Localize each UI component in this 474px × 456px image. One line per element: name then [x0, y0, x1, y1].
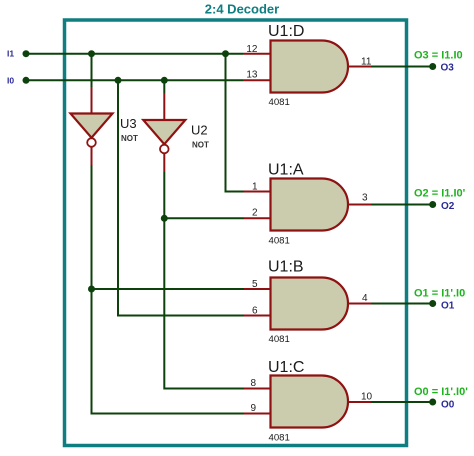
junction U3 output to pin5 — [88, 286, 95, 293]
svg-text:5: 5 — [252, 279, 258, 290]
sheet border frame — [65, 20, 407, 446]
junction I1 to pin1 vertical — [222, 50, 229, 57]
svg-text:4081: 4081 — [269, 433, 290, 444]
svg-text:U1:C: U1:C — [268, 359, 304, 376]
wire U2 output down to U1:C pin 8 — [164, 172, 244, 389]
wire O2 — [371, 204, 433, 206]
wire O3 — [371, 66, 433, 68]
svg-text:I0: I0 — [7, 75, 14, 85]
terminal dot O1 — [429, 300, 436, 307]
svg-text:8: 8 — [250, 378, 256, 389]
wire U3 output down to U1:C pin 9 — [92, 165, 245, 414]
svg-text:10: 10 — [361, 392, 373, 403]
svg-text:U1:B: U1:B — [268, 259, 304, 276]
wire I1 down to U1:A pin 1 — [226, 54, 245, 192]
svg-text:3: 3 — [362, 193, 368, 204]
svg-text:NOT: NOT — [121, 134, 138, 143]
svg-text:4081: 4081 — [269, 97, 290, 108]
pin stub U3 input — [91, 87, 93, 114]
svg-text:12: 12 — [246, 44, 258, 55]
terminal dot O2 — [429, 201, 436, 208]
and-gate U1:D — [271, 41, 349, 93]
svg-text:O0 = I1'.I0': O0 = I1'.I0' — [414, 386, 468, 398]
svg-text:4081: 4081 — [269, 236, 290, 247]
junction I1 to U3 — [88, 50, 95, 57]
pin stub U1:D pin 13 — [243, 79, 271, 81]
inverter U2 — [143, 120, 185, 153]
junction U2 output to pin2 — [161, 215, 168, 222]
terminal dot I1 — [23, 50, 30, 57]
and-gate U1:A — [271, 179, 349, 231]
and-gate U1:C — [271, 376, 349, 428]
svg-text:U1:A: U1:A — [268, 162, 304, 179]
svg-text:O1: O1 — [441, 301, 455, 312]
pin stub U1:B pin 4 output — [349, 303, 372, 305]
svg-text:4081: 4081 — [269, 334, 290, 345]
pin stub U1:C pin 10 output — [349, 401, 372, 403]
svg-text:2:4 Decoder: 2:4 Decoder — [205, 2, 279, 17]
svg-text:O0: O0 — [441, 400, 455, 411]
svg-text:1: 1 — [252, 182, 258, 193]
svg-text:O2 = I1.I0': O2 = I1.I0' — [414, 188, 466, 200]
pin stub U1:D pin 12 — [243, 53, 271, 55]
svg-text:U3: U3 — [120, 116, 137, 131]
svg-text:O3: O3 — [441, 63, 455, 74]
wire I1 down to U3 input — [91, 54, 93, 87]
pin stub U1:C pin 9 — [244, 413, 271, 415]
pin stub U2 output — [163, 154, 165, 173]
svg-text:O1 = I1'.I0: O1 = I1'.I0 — [414, 288, 465, 300]
pin stub U1:B pin 6 — [244, 315, 271, 317]
wire O1 — [371, 303, 433, 305]
svg-text:13: 13 — [246, 70, 258, 81]
svg-text:11: 11 — [361, 57, 372, 68]
pin stub U1:A pin 3 output — [349, 204, 372, 206]
pin stub U1:C pin 8 — [244, 388, 271, 390]
svg-text:4: 4 — [362, 293, 368, 304]
svg-text:U2: U2 — [191, 123, 208, 138]
wire U2 output to U1:A pin 2 — [164, 217, 244, 219]
terminal dot O0 — [429, 399, 436, 406]
wire I0 down to U2 input — [163, 80, 165, 93]
svg-text:NOT: NOT — [192, 141, 209, 150]
wire I0 rail — [26, 79, 243, 81]
pin stub U1:A pin 2 — [244, 217, 271, 219]
svg-text:O2: O2 — [441, 201, 455, 212]
svg-text:I1: I1 — [7, 49, 14, 59]
svg-text:2: 2 — [252, 208, 258, 219]
junction I0 to U2 — [161, 77, 168, 84]
svg-text:O3 = I1.I0: O3 = I1.I0 — [414, 50, 463, 62]
inverter U3 — [71, 114, 113, 147]
wire I1 rail — [26, 53, 243, 55]
svg-text:U1:D: U1:D — [268, 23, 304, 40]
svg-text:9: 9 — [250, 403, 256, 414]
pin stub U2 input — [163, 93, 165, 120]
pin stub U1:A pin 1 — [244, 191, 271, 193]
svg-text:6: 6 — [252, 306, 258, 317]
wire U3 output to U1:B pin 5 — [92, 288, 245, 290]
wire I0 down to U1:B pin 6 — [118, 80, 244, 315]
pin stub U3 output — [91, 147, 93, 165]
and-gate U1:B — [271, 278, 349, 330]
pin stub U1:B pin 5 — [244, 288, 271, 290]
junction I0 to pin6 vertical — [115, 77, 122, 84]
wire O0 — [371, 401, 433, 403]
terminal dot O3 — [429, 63, 436, 70]
terminal dot I0 — [23, 77, 30, 84]
pin stub U1:D pin 11 output — [349, 66, 372, 68]
